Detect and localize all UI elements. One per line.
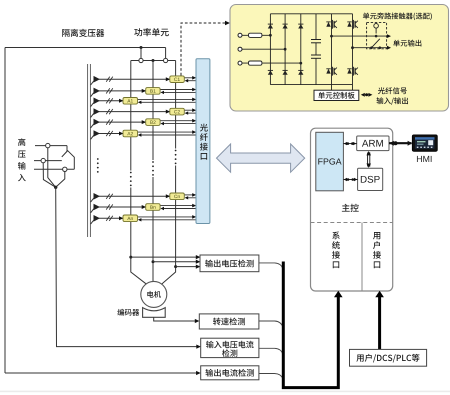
output voltage detection box (200, 255, 259, 272)
wire: HV phase 1 (35, 145, 67, 147)
user/DCS/PLC box (350, 349, 427, 366)
wire: phase bus C lower (162, 166, 176, 285)
secondary winding B1 (94, 88, 101, 95)
wire: phase bus B lower (152, 177, 154, 282)
wire: primary drop 3 (56, 172, 65, 188)
secondary winding Bn (94, 204, 101, 211)
HV terminal 2 (41, 158, 45, 162)
phase bus C ellipsis (175, 150, 177, 152)
HMI panel icon (412, 135, 437, 151)
thick wire: detections to system interface (283, 262, 338, 388)
HV terminal 3 (63, 167, 67, 171)
wire: star-point top run (5, 47, 166, 49)
power cell A2 (123, 130, 138, 137)
fuse F2 (249, 61, 262, 65)
power cell C1 (170, 76, 185, 83)
secondary winding A2 (94, 130, 101, 137)
label: system interface (系统接口) (332, 231, 340, 268)
wire: output voltage tap C (176, 266, 197, 268)
secondary winding C1 (94, 76, 101, 83)
junction output taps (129, 256, 132, 259)
fiber links cell Bn (160, 205, 193, 207)
wire arrow into cell A1 (119, 99, 123, 103)
fiber links cell A2 (138, 131, 193, 133)
output current detection box (201, 366, 259, 380)
isolation transformer core (87, 64, 89, 237)
power cell B1 (146, 88, 160, 95)
ARM U2 (357, 136, 389, 151)
label: HV input (高压输入) (18, 138, 26, 181)
secondary column ellipsis (97, 158, 99, 160)
bypass contactor (dashed, optional) (367, 22, 387, 48)
fiber links cell An (138, 216, 193, 218)
speed detection box (199, 314, 259, 329)
cell input terminals (238, 33, 242, 37)
rectifier diode legs (269, 14, 271, 85)
label: bypass contactor (363, 12, 432, 20)
rectifier bottom rail (270, 84, 352, 86)
power cell Bn (146, 204, 160, 211)
wire arrow into cell A2 (119, 132, 123, 136)
power cell An (123, 215, 138, 222)
wire: phase bus A lower (131, 188, 147, 285)
label: power unit (功率单元) (134, 28, 169, 36)
DC link capacitors (315, 14, 317, 40)
wire: control board stubs (331, 85, 333, 91)
input V/I detection box (201, 338, 259, 357)
secondary winding C2 (94, 108, 101, 115)
main controller box (主控) (311, 128, 393, 291)
fiber links cell B2 (160, 120, 193, 122)
fiber in/out glyph (361, 93, 365, 97)
junction IGBT outputs (330, 35, 333, 38)
terminal circle 1 (139, 58, 143, 62)
link ARM-DSP (367, 153, 369, 167)
wire: stub to terminal 2 (165, 48, 167, 59)
dashed callout from cell C1 to detail view (181, 23, 226, 76)
phase bus B ellipsis (152, 161, 154, 163)
HV terminal 1 (46, 143, 50, 147)
bottom faint strip (0, 391, 450, 393)
wire: phase top bus (131, 60, 176, 62)
FPGA U1 (316, 132, 344, 191)
secondary winding B2 (94, 119, 101, 126)
junction rectifier legs (269, 34, 272, 37)
fiber links cell A1 (138, 98, 193, 100)
cell control board box (314, 90, 359, 100)
wire arrow into cell Bn (142, 205, 146, 209)
wire: phase bus B upper (152, 61, 154, 161)
primary winding (delta) (62, 146, 75, 170)
power cell Cn (170, 193, 185, 200)
DSP U3 (358, 168, 383, 190)
cell output wire upper (332, 35, 388, 37)
wire: stub to terminal 1 (140, 48, 142, 59)
wire: conn input VI (259, 348, 283, 354)
cell output wire lower (353, 47, 388, 49)
wire: conn speed (259, 321, 283, 327)
thick wire: user/DCS/PLC to user interface (378, 296, 381, 349)
wire: output voltage tap A (131, 256, 197, 258)
wire arrow into cell B1 (142, 89, 146, 93)
fuse F1 (249, 33, 262, 37)
terminal circle 2 (164, 58, 168, 62)
secondary winding Cn (94, 193, 101, 200)
encoder (编码器) (143, 308, 166, 318)
dashed divider (311, 222, 393, 224)
label: cell output (单元输出) (393, 40, 421, 47)
wire arrow into cell C1 (166, 77, 170, 81)
cell input wires (242, 34, 270, 36)
wire: ARM-HMI thick link (389, 142, 412, 144)
power cell B2 (146, 119, 160, 126)
compartment divider (361, 223, 363, 291)
junction phase B top (152, 59, 155, 62)
phase bus A ellipsis (130, 172, 132, 174)
label: encoder (117, 309, 139, 316)
secondary winding An (94, 215, 101, 222)
wire: HV phase 3 (34, 168, 74, 170)
wire arrow into cell B2 (142, 120, 146, 124)
optical fiber interface bar (光纤接口) (196, 59, 210, 224)
label: fiber interface (200, 124, 208, 160)
wire: output voltage tap B (153, 261, 197, 263)
wire: conn output voltage (259, 263, 283, 269)
wire: HV phase 2 (34, 160, 62, 162)
motor M1 (电机) (141, 281, 167, 307)
wire: bottom run to output current detection (5, 372, 197, 374)
wire: primary drop 2 (43, 163, 56, 188)
power cell detail box (230, 5, 449, 112)
IGBT H-bridge legs (331, 14, 333, 85)
fiber links cell C2 (184, 109, 192, 111)
wire: primary drop 1 (48, 148, 56, 188)
fiber links cell B1 (160, 89, 193, 91)
wire: encoder to speed detection (154, 317, 196, 321)
label: isolation transformer (隔离变压器) (62, 29, 104, 37)
link FPGA-DSP (343, 179, 357, 181)
star point junction (54, 186, 57, 189)
wire arrow into cell C2 (166, 110, 170, 114)
label: cell control board (318, 92, 354, 99)
wire: phase bus A upper (130, 61, 132, 171)
wire arrow into cell Cn (166, 194, 170, 198)
label: main control (主控) (342, 204, 359, 212)
rectifier top rail (270, 13, 352, 15)
wire: conn output current (259, 374, 283, 379)
power cell C2 (170, 108, 185, 115)
wire: phase bus C upper (175, 61, 177, 149)
power cell A1 (123, 98, 138, 105)
wire: star point down-run (56, 187, 198, 346)
label: fiber signal (378, 87, 407, 94)
label: HMI (417, 156, 432, 162)
link FPGA-ARM (343, 143, 356, 145)
secondary winding A1 (94, 98, 101, 105)
hollow double arrow fiber<->controller (217, 144, 305, 172)
fiber links cell C1 (184, 77, 192, 79)
junction on top run (140, 46, 143, 49)
wire: left vertical run (4, 48, 6, 374)
label: user interface (用户接口) (373, 232, 381, 268)
fiber links cell Cn (184, 194, 192, 196)
wire arrow into cell An (119, 216, 123, 220)
